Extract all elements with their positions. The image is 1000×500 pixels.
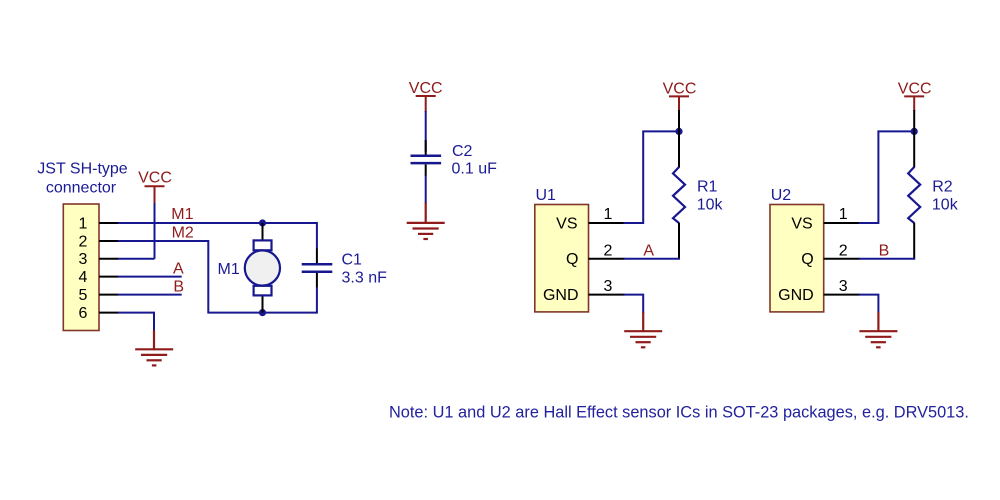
capacitor C1 plates: [302, 264, 333, 272]
svg-text:10k: 10k: [697, 197, 724, 214]
svg-text:VS: VS: [556, 215, 577, 232]
connector J1 label: [37, 161, 128, 197]
wire U2 VS to VCC junction: [859, 131, 915, 223]
IC U2 pin numbers: [839, 206, 848, 295]
power flag VCC (connector): [145, 186, 165, 203]
svg-text:C1: C1: [342, 252, 363, 269]
svg-text:Note: U1 and U2 are Hall Effec: Note: U1 and U2 are Hall Effect sensor I…: [389, 404, 969, 422]
svg-text:2: 2: [604, 243, 613, 260]
wire C2 to ground: [425, 175, 427, 204]
capacitor C1 leads: [316, 249, 318, 288]
resistor R2 label: [932, 179, 959, 214]
wire VCC to pin3: [154, 203, 156, 259]
junction (motor top): [259, 219, 266, 226]
capacitor C1 top lead wire: [316, 222, 318, 249]
svg-text:Q: Q: [801, 251, 813, 268]
IC U2 body: [770, 205, 824, 312]
capacitor C2 value label: [452, 143, 498, 178]
svg-text:M2: M2: [172, 225, 194, 242]
resistor R1 top lead: [678, 110, 680, 168]
capacitor C1 value label: [342, 252, 388, 287]
wire U2 GND to ground: [859, 295, 879, 313]
IC U1 body: [535, 205, 589, 312]
svg-text:U2: U2: [771, 187, 792, 204]
wire M2 net: [118, 241, 317, 313]
capacitor C2 leads: [425, 140, 427, 176]
svg-text:2: 2: [79, 233, 88, 250]
svg-text:VCC: VCC: [898, 80, 932, 97]
svg-text:2: 2: [839, 243, 848, 260]
svg-text:GND: GND: [778, 287, 814, 304]
resistor R2 zigzag: [908, 167, 920, 223]
capacitor C1 bottom lead wire: [316, 287, 318, 314]
IC U2 pin stubs: [824, 223, 860, 295]
svg-text:M1: M1: [218, 261, 240, 278]
svg-text:R2: R2: [932, 179, 953, 196]
svg-text:10k: 10k: [932, 197, 959, 214]
resistor R1 zigzag: [673, 167, 685, 223]
junction (U1 VCC / R1): [675, 128, 682, 135]
svg-text:Q: Q: [566, 251, 578, 268]
ground (U1): [624, 312, 662, 347]
svg-text:1: 1: [604, 206, 613, 223]
connector J1 pin stubs: [99, 223, 119, 313]
svg-text:VCC: VCC: [409, 80, 443, 97]
power flag VCC (C2): [416, 96, 436, 112]
wire net A stub: [118, 276, 182, 278]
wire U1 GND to ground: [624, 295, 644, 313]
svg-text:B: B: [879, 243, 890, 260]
IC U2 pin names: [778, 215, 814, 304]
svg-text:0.1 uF: 0.1 uF: [452, 161, 498, 178]
resistor R1 bottom lead: [678, 223, 680, 259]
wire U1 VS to VCC junction: [624, 131, 680, 223]
resistor R2 top lead: [913, 110, 915, 168]
ground (C2): [407, 203, 445, 240]
svg-text:A: A: [643, 243, 654, 260]
wire U1 Q / net A: [624, 258, 681, 260]
resistor R2 bottom lead: [913, 223, 915, 259]
svg-text:6: 6: [79, 305, 88, 322]
connector J1 pin numbers: [79, 215, 88, 322]
svg-text:B: B: [173, 279, 184, 296]
IC U1 pin names: [543, 215, 579, 304]
resistor R1 label: [697, 179, 724, 214]
svg-text:JST SH-type: JST SH-type: [37, 161, 128, 178]
ground (connector pin 6): [135, 330, 173, 365]
svg-text:1: 1: [839, 206, 848, 223]
svg-text:1: 1: [79, 215, 88, 232]
svg-text:VCC: VCC: [663, 80, 697, 97]
wire pin3 to VCC: [118, 258, 155, 260]
wire VCC to C2: [425, 111, 427, 152]
junction (motor bottom): [259, 309, 266, 316]
svg-text:3: 3: [839, 278, 848, 295]
svg-text:VS: VS: [791, 215, 812, 232]
svg-text:VCC: VCC: [138, 170, 172, 187]
svg-text:R1: R1: [697, 179, 718, 196]
svg-text:M1: M1: [171, 206, 193, 223]
svg-text:3.3 nF: 3.3 nF: [342, 269, 388, 286]
wire net B stub: [118, 294, 182, 296]
IC U1 pin numbers: [604, 206, 613, 295]
svg-text:connector: connector: [46, 179, 117, 196]
ground (U2): [859, 312, 897, 347]
motor M1 symbol: [245, 240, 280, 295]
IC U1 pin stubs: [589, 223, 625, 295]
capacitor C2 plates: [411, 156, 442, 163]
svg-text:4: 4: [79, 269, 88, 286]
connector J1 body: [63, 204, 99, 331]
power flag VCC (U1): [669, 96, 689, 111]
svg-text:3: 3: [604, 278, 613, 295]
junction (U2 VCC / R2): [911, 128, 918, 135]
svg-text:3: 3: [79, 251, 88, 268]
power flag VCC (U2): [904, 96, 924, 111]
wire U2 Q / net B: [859, 258, 916, 260]
motor M1 leads: [262, 223, 264, 313]
svg-text:A: A: [173, 261, 184, 278]
wire M1 net: [118, 222, 317, 224]
wire pin6 to ground: [118, 313, 154, 332]
svg-text:U1: U1: [536, 187, 557, 204]
svg-text:GND: GND: [543, 287, 579, 304]
svg-text:5: 5: [79, 287, 88, 304]
svg-text:C2: C2: [452, 143, 473, 160]
